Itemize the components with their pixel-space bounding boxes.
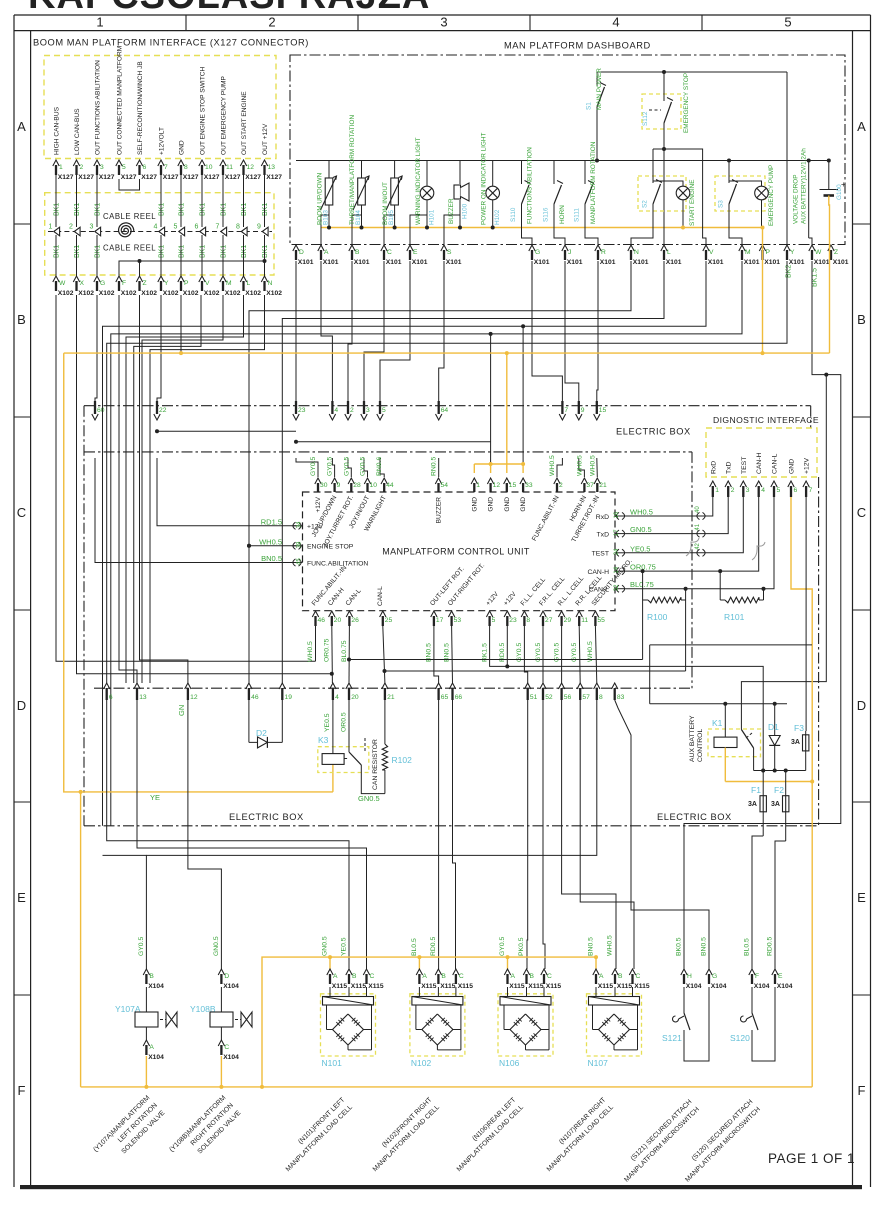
control unit top pin 28 JOY.TURRET ROT. <box>348 478 354 484</box>
svg-text:+12V: +12V <box>307 524 324 531</box>
wire to K1 relay switch <box>741 375 826 724</box>
svg-text:A: A <box>333 973 338 980</box>
svg-text:55: 55 <box>597 617 605 624</box>
svg-text:2: 2 <box>559 482 563 489</box>
cable reel contact 8 <box>241 227 247 236</box>
K3 coil <box>332 700 334 754</box>
svg-text:B: B <box>355 249 360 256</box>
wire gnd riser from M <box>490 334 492 464</box>
svg-text:53: 53 <box>454 617 462 624</box>
svg-text:N101: N101 <box>322 1058 343 1068</box>
control unit bottom pin 5 +12V <box>486 611 492 617</box>
svg-text:X127: X127 <box>204 174 220 181</box>
svg-text:EMERGENCY PUMP: EMERGENCY PUMP <box>768 165 775 226</box>
electric box right wall <box>818 477 820 826</box>
svg-text:N102: N102 <box>411 1058 432 1068</box>
load cell N101 bridge diamond <box>333 1014 349 1030</box>
svg-text:X101: X101 <box>386 259 402 266</box>
orange gnd drop to control unit <box>506 353 508 464</box>
control unit top pin 44 WARNLIGHT <box>381 478 387 484</box>
svg-text:8: 8 <box>184 164 188 171</box>
electric box diagnostic divider <box>691 452 693 688</box>
svg-text:BK0.5: BK0.5 <box>676 937 683 956</box>
control unit top pin 33 GND <box>520 478 526 484</box>
start engine switch S2 <box>652 149 654 183</box>
svg-text:21: 21 <box>387 694 395 701</box>
svg-text:S3: S3 <box>718 200 725 208</box>
svg-text:F: F <box>858 1083 866 1098</box>
X101 pin C <box>381 245 387 251</box>
svg-text:C: C <box>224 1044 229 1051</box>
svg-text:OUT CONNECTED MANPLATFORM: OUT CONNECTED MANPLATFORM <box>117 46 124 155</box>
wire X101 Y long route to channel pin 6 <box>107 261 787 683</box>
svg-text:3A: 3A <box>771 801 780 808</box>
svg-text:5: 5 <box>492 617 496 624</box>
svg-text:X104: X104 <box>148 983 164 990</box>
orange bottom bus <box>81 1086 813 1088</box>
svg-text:GY0.5: GY0.5 <box>327 457 334 476</box>
load cell N102 yellow dashed box <box>410 994 465 1056</box>
svg-text:46: 46 <box>318 617 326 624</box>
svg-text:K1: K1 <box>712 718 723 728</box>
svg-text:BK1: BK1 <box>221 203 228 216</box>
svg-text:2: 2 <box>731 487 735 494</box>
svg-text:52: 52 <box>545 694 553 701</box>
svg-text:C: C <box>459 973 464 980</box>
X101 pin N <box>628 245 634 251</box>
wire channel 56 to N107 B <box>562 700 616 969</box>
svg-text:Y: Y <box>164 280 169 287</box>
svg-text:OR0.5: OR0.5 <box>341 712 348 732</box>
svg-text:D2: D2 <box>256 728 267 738</box>
svg-text:X115: X115 <box>458 983 474 990</box>
X104 A pin <box>143 1040 149 1046</box>
orange left riser <box>64 353 333 792</box>
svg-text:3: 3 <box>746 487 750 494</box>
svg-text:ELECTRIC BOX: ELECTRIC BOX <box>229 812 304 822</box>
wall pin 3 <box>361 414 367 420</box>
control unit top pin 9 JOY.UP/DOWN <box>331 478 337 484</box>
svg-text:X102: X102 <box>225 290 241 297</box>
start engine lamp <box>653 181 683 186</box>
svg-text:X101: X101 <box>764 259 780 266</box>
svg-text:F: F <box>122 280 126 287</box>
wire channel 51 to N106 B <box>526 700 529 969</box>
channel pin 56 <box>558 683 564 689</box>
channel pin 83 <box>612 683 618 689</box>
svg-text:X115: X115 <box>421 983 437 990</box>
svg-text:LOW CAN-BUS: LOW CAN-BUS <box>74 108 81 155</box>
channel pin 20 <box>346 683 352 689</box>
control unit bottom pin 11 R.R. L.CELL <box>576 611 582 617</box>
svg-text:BOOM MAN PLATFORM INTERFACE (X: BOOM MAN PLATFORM INTERFACE (X127 CONNEC… <box>33 38 309 48</box>
svg-text:FUNC.ABILITATION: FUNC.ABILITATION <box>307 560 368 567</box>
svg-text:BK1: BK1 <box>179 245 186 258</box>
svg-text:45: 45 <box>297 558 303 565</box>
svg-text:X104: X104 <box>148 1054 164 1061</box>
svg-text:E: E <box>17 890 26 905</box>
svg-text:B104: B104 <box>355 210 362 225</box>
svg-text:28: 28 <box>353 482 361 489</box>
svg-text:X101: X101 <box>600 259 616 266</box>
svg-text:BK1: BK1 <box>74 245 81 258</box>
cable reel contact 4 <box>159 227 165 236</box>
svg-text:X101: X101 <box>567 259 583 266</box>
X101 pin E <box>407 245 413 251</box>
CAN-H link wire <box>349 659 643 661</box>
wire X102 M left-down <box>142 295 223 683</box>
svg-text:DIGNOSTIC INTERFACE: DIGNOSTIC INTERFACE <box>713 415 819 425</box>
svg-text:A: A <box>149 1044 154 1051</box>
svg-text:25: 25 <box>385 617 393 624</box>
svg-text:BK1: BK1 <box>54 203 61 216</box>
svg-text:X101: X101 <box>744 259 760 266</box>
orange gnd stub <box>473 464 475 473</box>
control unit right pin 24 TEST <box>616 549 619 556</box>
main power switch S1 <box>786 72 788 245</box>
svg-text:S120: S120 <box>730 1033 750 1043</box>
svg-text:9: 9 <box>337 482 341 489</box>
svg-text:GN0.5: GN0.5 <box>630 525 652 534</box>
svg-text:R: R <box>601 249 606 256</box>
svg-text:YE: YE <box>150 793 160 802</box>
wire CAN-L to diagnostic <box>625 497 774 589</box>
svg-text:D1: D1 <box>768 722 779 732</box>
svg-text:GY0.5: GY0.5 <box>499 937 506 956</box>
channel pin 4 <box>330 683 336 689</box>
svg-text:CONTROL: CONTROL <box>697 729 704 762</box>
load cell N101 connector pins <box>327 969 333 975</box>
svg-text:8: 8 <box>599 694 603 701</box>
control unit bottom pin 29 R.L. L.CELL <box>558 611 564 617</box>
switch S111 MANPLATFORM ROTATION <box>584 161 586 185</box>
control unit right pin 17 TxD <box>616 530 619 537</box>
wire channel 6 to N101 B <box>107 700 349 969</box>
svg-text:RD0.5: RD0.5 <box>767 937 774 956</box>
svg-text:START ENGINE: START ENGINE <box>689 179 696 226</box>
orange wire through X101 Z <box>829 245 831 353</box>
svg-text:BK1: BK1 <box>95 245 102 258</box>
svg-text:X101: X101 <box>354 259 370 266</box>
svg-text:G: G <box>100 280 105 287</box>
cable reel contact 9 <box>262 227 268 236</box>
fuse F3 <box>805 731 807 771</box>
relay K1 aux battery control yellow box <box>708 729 761 757</box>
control unit top pin 21 TURRET.ROT.-IN <box>594 478 600 484</box>
svg-text:F1: F1 <box>751 785 761 795</box>
wire pin 22 to +12V RD1.5 <box>157 458 297 526</box>
svg-text:WARNING INDICATOR LIGHT: WARNING INDICATOR LIGHT <box>415 137 422 225</box>
wall pin 2 <box>345 414 351 420</box>
electric box bottom dash-dot <box>84 825 819 827</box>
svg-text:4: 4 <box>612 15 619 30</box>
svg-text:MANPLATFORM ROTATION: MANPLATFORM ROTATION <box>590 141 597 224</box>
svg-text:BK1: BK1 <box>95 203 102 216</box>
svg-text:2: 2 <box>69 224 73 231</box>
wire X101 J to wall pin 9 <box>565 261 579 401</box>
channel pin 12 <box>185 683 191 689</box>
svg-text:3A: 3A <box>748 801 757 808</box>
jog wire in wall 23 right <box>296 441 491 443</box>
svg-text:54: 54 <box>441 482 449 489</box>
svg-text:N107: N107 <box>588 1058 609 1068</box>
wire channel 8 to X104 B GY0.5 <box>146 700 596 855</box>
svg-text:BL0.75: BL0.75 <box>341 640 348 662</box>
X127 to reel wires <box>55 175 57 227</box>
svg-text:1: 1 <box>59 164 63 171</box>
wire X101 A to wall pin 4 <box>321 261 332 401</box>
orange gnd stub <box>506 464 508 473</box>
svg-text:C: C <box>857 505 866 520</box>
wire control pin 8 to channel 51 <box>524 626 527 683</box>
svg-text:K3: K3 <box>318 735 329 745</box>
svg-text:9: 9 <box>257 224 261 231</box>
control unit right pin 32 CAN-L <box>616 585 619 592</box>
svg-text:5: 5 <box>784 15 791 30</box>
svg-text:46: 46 <box>251 694 259 701</box>
svg-text:26: 26 <box>351 617 359 624</box>
svg-text:X102: X102 <box>141 290 157 297</box>
svg-text:S1: S1 <box>586 102 593 110</box>
svg-text:BN0.5: BN0.5 <box>261 554 282 563</box>
svg-text:X115: X115 <box>368 983 384 990</box>
X102 pin V <box>199 276 205 282</box>
svg-text:WH0.5: WH0.5 <box>259 537 282 546</box>
electric box left wall <box>83 406 85 826</box>
potentiometer B103 BOOM UP/DOWN <box>328 161 330 179</box>
svg-text:L: L <box>667 249 671 256</box>
load cell N106 body <box>507 987 509 997</box>
channel pin 13 <box>134 683 140 689</box>
wall pin 64 <box>436 414 442 420</box>
svg-text:TxD: TxD <box>726 461 733 474</box>
svg-text:6: 6 <box>109 694 113 701</box>
wire X101 C to wall pin 3 <box>364 261 384 401</box>
svg-text:3A: 3A <box>791 739 800 746</box>
svg-text:ELECTRIC BOX: ELECTRIC BOX <box>616 427 691 437</box>
orange gnd stub <box>522 464 524 473</box>
wire X102 W down-right to control unit pin 46 <box>56 295 316 661</box>
cable reel contact 3 <box>95 227 101 236</box>
svg-text:B: B <box>441 973 446 980</box>
svg-text:S112: S112 <box>642 111 649 126</box>
svg-text:OUT START ENGINE: OUT START ENGINE <box>241 91 248 155</box>
orange gnd stub <box>490 464 492 473</box>
svg-text:5: 5 <box>122 164 126 171</box>
channel pin 19 <box>279 683 285 689</box>
wire tap ENGINE STOP WH0.5 <box>249 545 297 547</box>
svg-text:N: N <box>634 249 639 256</box>
svg-text:42: 42 <box>695 542 701 549</box>
svg-text:6: 6 <box>143 164 147 171</box>
cable reel spiral symbol <box>119 223 134 237</box>
svg-text:1: 1 <box>476 482 480 489</box>
svg-text:CABLE REEL: CABLE REEL <box>103 244 156 253</box>
svg-text:BL0.5: BL0.5 <box>744 938 751 956</box>
svg-text:33: 33 <box>525 482 533 489</box>
svg-text:X101: X101 <box>633 259 649 266</box>
reel to X102 wires <box>55 235 57 276</box>
svg-text:G: G <box>712 973 717 980</box>
wire X102 G to wall pin 60 <box>95 295 97 401</box>
svg-text:C: C <box>636 973 641 980</box>
svg-text:BUZZER: BUZZER <box>448 198 455 224</box>
wire X101 G to wall pin 7 <box>532 261 562 401</box>
orange K1 to riser <box>725 781 812 783</box>
cable reel dashed wire <box>48 231 272 233</box>
svg-text:A: A <box>599 973 604 980</box>
svg-text:BK1: BK1 <box>241 245 248 258</box>
svg-text:F: F <box>755 973 759 980</box>
svg-text:BK1: BK1 <box>54 245 61 258</box>
svg-text:6: 6 <box>794 487 798 494</box>
svg-text:BK1: BK1 <box>159 203 166 216</box>
wire X101 R to wall pin 15 <box>597 261 598 401</box>
svg-text:5: 5 <box>174 224 178 231</box>
orange diagnostic GND wire <box>791 497 812 1087</box>
svg-text:CAN-L: CAN-L <box>377 586 384 606</box>
wire control pin 25 to channel 21 <box>383 626 385 683</box>
wire control pin 29 to channel 56 <box>561 626 563 683</box>
svg-text:X127: X127 <box>245 174 261 181</box>
svg-text:RD0.5: RD0.5 <box>430 937 437 956</box>
K1 top wire <box>650 703 787 705</box>
wire X101 E to wall pin 5 <box>380 261 410 401</box>
svg-text:HORN: HORN <box>559 205 566 224</box>
svg-text:WH0.5: WH0.5 <box>307 641 314 662</box>
wire X101 S to wall pin 64 <box>439 261 444 401</box>
wall pin 4 <box>329 414 335 420</box>
svg-text:1: 1 <box>715 487 719 494</box>
X102 pin F <box>116 276 122 282</box>
svg-text:BL0.75: BL0.75 <box>630 580 654 589</box>
reel box bottom jumper wire <box>119 261 265 276</box>
svg-text:WH0.5: WH0.5 <box>549 455 556 476</box>
channel pin 21 <box>382 683 388 689</box>
svg-text:Z: Z <box>143 280 147 287</box>
svg-text:11: 11 <box>226 164 233 171</box>
svg-text:CAN-L: CAN-L <box>589 587 610 594</box>
X102 pin G <box>94 276 100 282</box>
svg-text:FUNCTIONS ABILITATION: FUNCTIONS ABILITATION <box>527 147 534 224</box>
svg-text:1: 1 <box>96 15 103 30</box>
svg-text:PAGE 1 OF 1: PAGE 1 OF 1 <box>768 1151 855 1166</box>
svg-text:4: 4 <box>761 487 765 494</box>
X101 pin R <box>595 245 601 251</box>
X101 pin P <box>759 245 765 251</box>
orange main horizontal wire row B <box>64 352 830 354</box>
control unit bottom pin 17 OUT-LEFT ROT. <box>431 611 437 617</box>
X101 pin W <box>809 245 815 251</box>
svg-text:C: C <box>387 249 392 256</box>
svg-text:ENGINE STOP: ENGINE STOP <box>307 544 354 551</box>
svg-text:34: 34 <box>297 521 303 528</box>
cable reel contact 6 <box>200 227 206 236</box>
svg-text:OUT FUNCTIONS ABILITATION: OUT FUNCTIONS ABILITATION <box>95 60 102 155</box>
svg-text:GND: GND <box>520 497 527 512</box>
control unit top pin 12 GND <box>487 478 493 484</box>
wire control pin 20 to channel 4 <box>331 626 334 683</box>
load cell N101 body <box>329 987 331 997</box>
svg-text:65: 65 <box>441 694 449 701</box>
wire F2 to X104 E <box>775 841 786 969</box>
svg-text:GND: GND <box>488 497 495 512</box>
svg-text:S2: S2 <box>642 200 649 208</box>
X102 pin X <box>73 276 79 282</box>
svg-text:5: 5 <box>382 407 386 414</box>
svg-text:S121: S121 <box>662 1033 682 1043</box>
cable reel contact 2 <box>74 227 80 236</box>
svg-text:X102: X102 <box>245 290 261 297</box>
svg-text:RN0.5: RN0.5 <box>431 457 438 476</box>
svg-text:GND: GND <box>504 497 511 512</box>
wire X102 Y to wall pin 22 <box>157 295 161 401</box>
svg-text:PK0.5: PK0.5 <box>518 937 525 956</box>
svg-text:TEST: TEST <box>741 457 748 474</box>
svg-text:OUT +12V: OUT +12V <box>262 123 269 155</box>
svg-text:CAN RESISTOR: CAN RESISTOR <box>372 739 379 790</box>
svg-text:X115: X115 <box>332 983 348 990</box>
svg-text:+12V: +12V <box>804 457 811 474</box>
svg-text:X127: X127 <box>141 174 157 181</box>
X104 D pin <box>218 969 224 975</box>
X101 pin Y <box>784 245 790 251</box>
svg-text:BN0.5: BN0.5 <box>701 937 708 956</box>
svg-text:BK1: BK1 <box>200 245 207 258</box>
svg-text:RD1.5: RD1.5 <box>261 517 282 526</box>
CAN-L link wire <box>385 670 686 672</box>
X102 pin W <box>53 276 59 282</box>
svg-text:CAN-L: CAN-L <box>772 453 779 474</box>
wire gnd riser from V <box>522 326 524 464</box>
X101 pin S <box>441 245 447 251</box>
svg-text:1: 1 <box>49 224 53 231</box>
channel pin 6 <box>104 683 110 689</box>
svg-text:V: V <box>709 249 714 256</box>
svg-text:A: A <box>17 119 26 134</box>
orange stub to load cell A pin <box>507 957 509 969</box>
load cell N106 yellow dashed box <box>498 994 553 1056</box>
svg-text:BK1: BK1 <box>262 245 269 258</box>
svg-text:X101: X101 <box>446 259 462 266</box>
svg-text:BK1: BK1 <box>262 203 269 216</box>
svg-text:GND: GND <box>179 140 186 155</box>
svg-text:A: A <box>857 119 866 134</box>
svg-text:EMERGENCY STOP: EMERGENCY STOP <box>683 73 690 133</box>
potentiometer B105 BOOM IN/OUT <box>394 161 396 179</box>
wire X102 Z to channel pin 12 <box>140 295 188 683</box>
svg-text:X127: X127 <box>121 174 137 181</box>
svg-text:7: 7 <box>216 224 220 231</box>
svg-text:3: 3 <box>366 407 370 414</box>
X102 pin Z <box>136 276 142 282</box>
svg-text:A: A <box>324 249 329 256</box>
channel pin 8 <box>594 683 600 689</box>
orange gnd bus <box>474 463 523 465</box>
svg-text:S: S <box>447 249 452 256</box>
svg-text:WH0.5: WH0.5 <box>589 455 596 476</box>
svg-text:E: E <box>778 973 783 980</box>
svg-text:AUX BATTERY)12V/1.2Ah: AUX BATTERY)12V/1.2Ah <box>801 148 808 224</box>
svg-text:X127: X127 <box>58 174 74 181</box>
svg-text:12: 12 <box>493 482 501 489</box>
svg-text:+12V: +12V <box>315 496 322 512</box>
X104 C pin <box>218 1040 224 1046</box>
svg-text:W: W <box>59 280 66 287</box>
load cell N102 bridge diamond <box>422 1014 438 1030</box>
svg-text:N: N <box>268 280 273 287</box>
svg-text:BN0.5: BN0.5 <box>588 937 595 956</box>
